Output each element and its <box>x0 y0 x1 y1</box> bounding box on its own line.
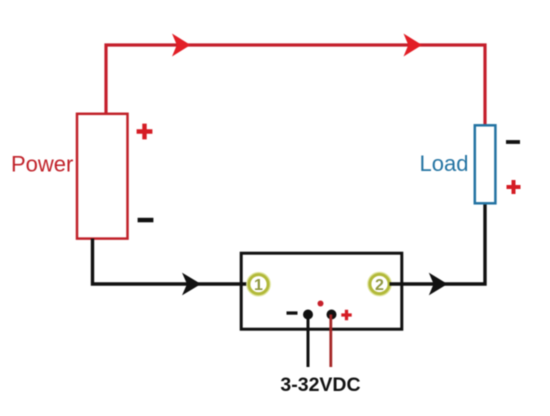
arrowhead on bottom-left wire (current direction right) <box>182 273 201 296</box>
controller box (solid state relay module) <box>241 253 402 329</box>
wire: black DC control negative lead <box>307 315 310 368</box>
arrowhead on bottom-right wire (current direction right) <box>429 273 448 296</box>
svg-text:Power: Power <box>11 151 73 176</box>
terminal 2 circle <box>370 274 389 293</box>
polarity + of load <box>507 180 521 194</box>
svg-text:Load: Load <box>420 151 469 176</box>
svg-text:3-32VDC: 3-32VDC <box>280 374 360 396</box>
wire: red top loop from Power + terminal to Load - terminal <box>106 45 485 126</box>
svg-text:1: 1 <box>254 277 263 294</box>
wire: dark red DC control positive lead <box>329 315 332 368</box>
terminal 1 circle <box>249 275 268 294</box>
load block <box>475 125 496 203</box>
red indicator dot <box>318 301 324 307</box>
arrowhead on top wire (left, current direction right) <box>172 34 191 57</box>
polarity + of power source <box>137 124 153 140</box>
polarity + of DC control input <box>341 310 351 320</box>
polarity - of power source <box>138 218 154 223</box>
polarity - of load <box>506 140 520 144</box>
DC input positive terminal dot <box>327 310 337 320</box>
polarity - of DC control input <box>287 311 298 314</box>
svg-text:2: 2 <box>375 277 384 294</box>
wire: black from controller terminal 2 to Load + terminal <box>390 203 486 284</box>
DC input negative terminal dot <box>303 310 313 320</box>
wire: black from Power - terminal to controller terminal 1 <box>93 239 251 285</box>
arrowhead on top wire (right, current direction right) <box>404 34 423 57</box>
power source block (battery) <box>77 114 128 239</box>
